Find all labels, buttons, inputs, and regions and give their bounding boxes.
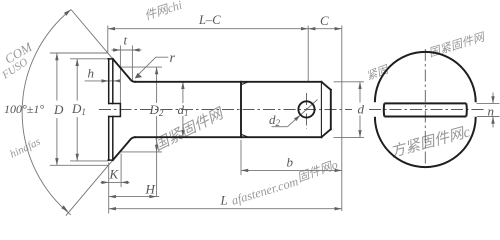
svg-text:h: h bbox=[88, 66, 95, 81]
svg-text:K: K bbox=[109, 167, 120, 182]
svg-text:b: b bbox=[287, 155, 294, 170]
svg-text:r: r bbox=[170, 51, 176, 66]
svg-text:L: L bbox=[220, 193, 228, 208]
svg-text:H: H bbox=[145, 182, 156, 197]
svg-text:100°±1°: 100°±1° bbox=[4, 102, 44, 116]
svg-text:C: C bbox=[320, 13, 329, 28]
svg-text:n: n bbox=[488, 104, 495, 119]
svg-text:d: d bbox=[358, 102, 365, 117]
svg-text:D: D bbox=[53, 102, 64, 117]
svg-text:L–C: L–C bbox=[198, 13, 221, 27]
svg-text:t: t bbox=[124, 33, 128, 48]
